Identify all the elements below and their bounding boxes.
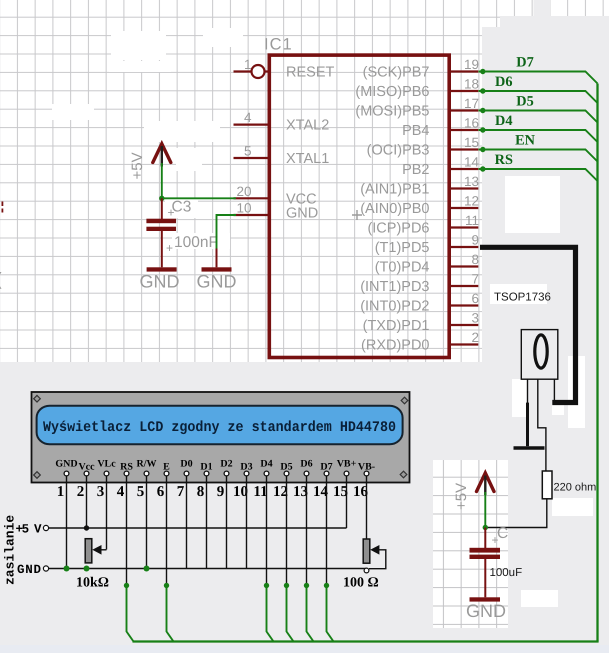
pin 20 VCC (left) — [234, 197, 270, 199]
svg-text:2: 2 — [471, 330, 479, 345]
LCD pad circle pin 12 — [284, 471, 289, 476]
wire LCD net D6 to bottom bus — [307, 586, 314, 642]
wire +5V stem to node — [161, 146, 163, 167]
svg-text:D5: D5 — [516, 94, 533, 110]
svg-text:(RXD)PD0: (RXD)PD0 — [361, 338, 429, 354]
svg-text:(INT0)PD2: (INT0)PD2 — [360, 299, 429, 315]
svg-text:10: 10 — [236, 201, 251, 216]
white-out patch 2 — [52, 104, 94, 120]
bottom window band — [0, 645, 609, 653]
svg-text:R/W: R/W — [137, 459, 157, 470]
junction Vcc/+5V rail — [84, 525, 89, 530]
junction dot LCD net D7 — [324, 583, 329, 588]
svg-text:4: 4 — [117, 484, 125, 500]
ground symbol TSOP — [514, 446, 545, 450]
wire LCD pin 4 vertical — [126, 476, 128, 586]
svg-text:(T0)PD4: (T0)PD4 — [375, 260, 430, 276]
svg-text:C: C — [497, 525, 508, 542]
junction pin1/GND rail — [64, 566, 70, 572]
LCD pad circle pin 14 — [324, 471, 329, 476]
LCD pad circle pin 15 — [344, 471, 349, 476]
svg-text:zasilanie: zasilanie — [3, 515, 18, 585]
svg-text:17: 17 — [464, 96, 479, 111]
wire net D5 from IC to right bus — [479, 111, 598, 123]
svg-text:11: 11 — [253, 484, 267, 500]
wire LCD pin 9 vertical — [226, 476, 228, 569]
pin 3 (TXD)PD1 (right) — [448, 324, 478, 326]
cut-off text mark left edge 1 — [1, 202, 3, 213]
svg-text:100nF: 100nF — [174, 234, 218, 251]
wire LCD net RS to bottom bus — [127, 586, 134, 642]
junction dot LCD net D4 — [264, 583, 269, 588]
terminal circle GND — [43, 566, 48, 571]
LCD pad circle pin 13 — [304, 471, 309, 476]
pin 5 XTAL1 (left) — [234, 157, 270, 159]
pin 13 (AIN1)PB1 (right) — [448, 187, 478, 189]
pin 11 (ICP)PD6 (right) — [448, 226, 478, 228]
wire net D6 from IC to right bus — [479, 91, 598, 103]
svg-text:1: 1 — [244, 57, 252, 72]
svg-text:XTAL2: XTAL2 — [286, 118, 329, 134]
svg-text:15: 15 — [333, 484, 348, 500]
svg-text:8: 8 — [197, 484, 205, 500]
svg-text:+: + — [492, 533, 499, 547]
LCD pad circle pin 2 — [84, 471, 89, 476]
svg-text:+5V: +5V — [453, 483, 470, 510]
junction node cap/+5V — [483, 525, 488, 530]
svg-text:(ICP)PD6: (ICP)PD6 — [367, 221, 429, 237]
LCD pad circle pin 9 — [224, 471, 229, 476]
white-out patch 11 — [568, 356, 585, 428]
outside-sheet gray area right — [482, 16, 609, 653]
svg-text:(AIN1)PB1: (AIN1)PB1 — [360, 182, 429, 198]
wire node to VCC pin 20 — [162, 197, 236, 199]
grid top strip — [482, 0, 609, 16]
TSOP1736 lens ellipse — [535, 335, 547, 368]
svg-text:(: ( — [0, 269, 2, 289]
LCD pad circle pin 3 — [104, 471, 109, 476]
grid over canvas top-left — [0, 0, 482, 362]
svg-text:D0: D0 — [180, 459, 192, 470]
svg-text:(INT1)PD3: (INT1)PD3 — [360, 279, 429, 295]
pin 4 XTAL2 (left) — [234, 123, 270, 125]
svg-text:12: 12 — [464, 194, 479, 209]
svg-text:(TXD)PD1: (TXD)PD1 — [363, 318, 430, 334]
svg-text:15: 15 — [464, 135, 479, 150]
wire LCD pin 8 vertical — [206, 476, 208, 569]
svg-text:(MISO)PB6: (MISO)PB6 — [355, 84, 429, 100]
wire LCD net D7 to bottom bus — [327, 586, 334, 642]
IC1 origin cross — [352, 210, 362, 220]
svg-text:+5V: +5V — [129, 152, 146, 179]
screw bottom-left — [34, 472, 41, 479]
svg-text:220 ohm: 220 ohm — [554, 482, 597, 494]
svg-text:PB4: PB4 — [402, 123, 429, 139]
svg-text:11: 11 — [465, 213, 479, 228]
svg-text:19: 19 — [464, 57, 479, 72]
wire LCD pin 16 vertical — [366, 476, 368, 539]
wire LCD pin 3 vertical — [106, 476, 108, 550]
white grid patch bottom right — [433, 460, 508, 628]
svg-text:VB+: VB+ — [337, 459, 357, 470]
svg-text:VLc: VLc — [97, 459, 116, 470]
svg-text:9: 9 — [471, 233, 479, 248]
svg-text:+: + — [166, 241, 173, 255]
LCD pad circle pin 11 — [264, 471, 269, 476]
white-out patch 15 — [521, 590, 558, 607]
wire net D4 from IC to right bus — [479, 130, 598, 142]
wire LCD net EN to bottom bus — [167, 586, 174, 642]
screw bottom-right — [400, 471, 407, 478]
pin 16 PB4 (right) — [448, 129, 478, 131]
svg-text:IC1: IC1 — [264, 36, 293, 54]
LCD pad circle pin 6 — [164, 471, 169, 476]
wire LCD pin 11 vertical — [266, 476, 268, 586]
outside-sheet gray area bottom — [0, 362, 482, 653]
junction node C3/+5V — [159, 196, 164, 201]
junction dot net D6 — [480, 88, 485, 93]
wire thick black pin 9 to TSOP OUT — [480, 247, 576, 402]
wire LCD pin 14 vertical — [326, 476, 328, 586]
screw top-right — [401, 397, 408, 404]
TSOP pin 2 (Vs) lead to resistor — [538, 379, 546, 471]
svg-text:13: 13 — [293, 484, 308, 500]
screw top-left — [34, 395, 41, 402]
svg-text:(AIN0)PB0: (AIN0)PB0 — [360, 201, 429, 217]
white-out patch 14 — [552, 498, 593, 516]
wire LCD pin 6 vertical — [166, 476, 168, 586]
svg-text:(SCK)PB7: (SCK)PB7 — [363, 65, 430, 81]
wire bottom green bus — [133, 640, 599, 642]
svg-text:5: 5 — [244, 144, 252, 159]
svg-text:(OCI)PB3: (OCI)PB3 — [367, 143, 430, 159]
pin 1 RESET (left) — [234, 70, 252, 72]
svg-text:3: 3 — [97, 484, 105, 500]
op IC1 ATmega body — [269, 55, 449, 357]
TSOP pin 3 (OUT) lead — [553, 379, 555, 403]
svg-text:GND: GND — [197, 272, 237, 292]
junction dot LCD net EN — [164, 583, 169, 588]
TSOP pin 1 (GND) lead — [527, 379, 529, 404]
svg-text:D7: D7 — [516, 55, 533, 71]
svg-text:9: 9 — [217, 484, 225, 500]
terminal circle +5V — [43, 525, 48, 530]
IR receiver TSOP1736 body — [521, 330, 558, 380]
svg-text:7: 7 — [177, 484, 185, 500]
white-out patch 12 — [552, 404, 564, 415]
svg-text:12: 12 — [273, 484, 288, 500]
svg-text:D4: D4 — [495, 113, 512, 129]
wire LCD pin 10 vertical — [246, 476, 248, 569]
white-out patch 3 — [144, 121, 220, 142]
white-out patch 4 — [176, 148, 202, 171]
svg-text:Wyświetlacz LCD zgodny ze stan: Wyświetlacz LCD zgodny ze standardem HD4… — [43, 420, 396, 436]
wire LCD pin 12 vertical — [286, 476, 288, 586]
svg-text:6: 6 — [471, 291, 479, 306]
svg-text:3: 3 — [471, 311, 479, 326]
pin 8 (T0)PD4 (right) — [448, 265, 478, 267]
wire GND pin10 to ground — [217, 215, 237, 249]
svg-text:GND: GND — [17, 563, 41, 577]
LCD pad circle pin 5 — [144, 471, 149, 476]
white-out patch 7 — [172, 233, 230, 249]
LCD pad circle pin 4 — [124, 471, 129, 476]
junction dot net RS — [480, 166, 485, 171]
svg-text:20: 20 — [236, 184, 251, 199]
resistor 220 ohm body — [542, 471, 552, 499]
wire LCD net D5 to bottom bus — [287, 586, 294, 642]
potentiometer R 10k body — [85, 539, 92, 563]
svg-text:D4: D4 — [260, 459, 272, 470]
white-out patch 13 — [512, 379, 527, 417]
junction pin5 R/W GND rail — [144, 566, 150, 572]
pot 100 wiper loop — [369, 550, 386, 569]
white grid step top-right — [482, 16, 500, 27]
wire LCD pin 1 vertical — [66, 476, 68, 569]
pin 10 GND (left) — [234, 214, 270, 216]
wire net RS from IC to right bus — [479, 169, 598, 181]
wire net D7 from IC to right bus — [479, 72, 598, 84]
svg-text:100 Ω: 100 Ω — [343, 576, 379, 591]
white-out patch 9 — [505, 176, 560, 233]
white-out patch 1 — [111, 31, 166, 60]
wire LCD pin 13 vertical — [306, 476, 308, 586]
pot 10k wiper — [98, 549, 107, 551]
white-out patch 5 — [203, 28, 243, 47]
junction dot LCD net RS — [124, 583, 129, 588]
svg-text:100uF: 100uF — [490, 567, 523, 579]
wire +5V stem bottom — [484, 476, 486, 496]
svg-text:D6: D6 — [495, 74, 512, 90]
wire GND rail — [49, 568, 367, 570]
svg-text:5: 5 — [137, 484, 145, 500]
wire LCD pin 2 vertical — [86, 476, 88, 528]
svg-text:18: 18 — [464, 77, 479, 92]
junction dot LCD net D6 — [304, 583, 309, 588]
junction dot net D7 — [480, 69, 485, 74]
junction dot LCD net D5 — [284, 583, 289, 588]
LCD pad circle pin 7 — [184, 471, 189, 476]
white-out patch 6 — [165, 198, 198, 218]
svg-text:2: 2 — [77, 484, 85, 500]
LCD pad circle pin 10 — [244, 471, 249, 476]
junction dot net D4 — [480, 127, 485, 132]
+5V supply symbol (top) — [153, 144, 171, 163]
wire LCD net D4 to bottom bus — [267, 586, 274, 642]
pin 14 PB2 (right) — [448, 168, 478, 170]
pin 15 (OCI)PB3 (right) — [448, 148, 478, 150]
pin 9 (T1)PD5 (right) — [448, 246, 478, 248]
LCD blue display window — [37, 406, 403, 445]
svg-text:EN: EN — [515, 133, 536, 149]
svg-text:XTAL1: XTAL1 — [286, 151, 329, 167]
LCD module body — [32, 392, 410, 483]
svg-text:6: 6 — [157, 484, 165, 500]
svg-text:1: 1 — [57, 484, 65, 500]
wire resistor to +5V node — [485, 499, 547, 528]
ground symbol under pin10 — [202, 267, 232, 271]
LCD pad circle pin 8 — [204, 471, 209, 476]
gray notch in top strip — [534, 0, 551, 16]
svg-text:PB2: PB2 — [402, 162, 429, 178]
white-out patch 8 — [109, 61, 171, 72]
ground symbol under C3 — [147, 267, 177, 271]
wire +5V rail — [49, 527, 347, 529]
svg-text:GND: GND — [140, 272, 180, 292]
junction dot net D5 — [480, 108, 485, 113]
svg-text:14: 14 — [464, 155, 480, 170]
wire net EN from IC to right bus — [479, 150, 598, 162]
svg-text:10: 10 — [233, 484, 248, 500]
LCD pad circle pin 16 — [364, 471, 369, 476]
wire LCD pin 5 vertical — [146, 476, 148, 569]
white-out patch 10 — [490, 284, 547, 304]
svg-text:+: + — [168, 206, 175, 220]
wire LCD pin 7 vertical — [186, 476, 188, 569]
svg-text:+5 V: +5 V — [16, 523, 42, 537]
svg-text:RS: RS — [495, 152, 513, 168]
svg-text:(MOSI)PB5: (MOSI)PB5 — [355, 104, 429, 120]
svg-text:7: 7 — [471, 272, 479, 287]
pin 17 (MOSI)PB5 (right) — [448, 109, 478, 111]
svg-text:D6: D6 — [300, 459, 312, 470]
junction pot/GND rail — [84, 566, 90, 572]
pin 19 (SCK)PB7 (right) — [448, 70, 478, 72]
svg-text:16: 16 — [464, 116, 479, 131]
wire right vertical green bus — [596, 84, 598, 642]
capacitor C3 — [161, 198, 163, 219]
junction dot net EN — [480, 147, 485, 152]
+5V supply symbol (bottom) — [477, 473, 495, 492]
ground symbol bottom right — [470, 597, 501, 601]
pin 7 (INT1)PD3 (right) — [448, 285, 478, 287]
svg-text:D2: D2 — [220, 459, 232, 470]
svg-text:8: 8 — [471, 252, 479, 267]
pot 100 bottom terminal circle — [364, 568, 369, 573]
pin 2 (RXD)PD0 (right) — [448, 343, 478, 345]
svg-text:GND: GND — [55, 459, 77, 470]
svg-text:4: 4 — [244, 110, 252, 125]
svg-text:13: 13 — [464, 174, 479, 189]
svg-text:(T1)PD5: (T1)PD5 — [375, 240, 430, 256]
svg-text:TSOP1736: TSOP1736 — [494, 292, 551, 304]
wire LCD pin 15 vertical — [346, 476, 348, 528]
potentiometer R 100 body — [363, 539, 370, 563]
svg-text:10kΩ: 10kΩ — [76, 576, 109, 591]
pin 6 (INT0)PD2 (right) — [448, 304, 478, 306]
pin 12 (AIN0)PB0 (right) — [448, 207, 478, 209]
svg-text:RESET: RESET — [286, 65, 334, 81]
pin 18 (MISO)PB6 (right) — [448, 90, 478, 92]
capacitor C 100uF — [484, 528, 486, 549]
LCD pad circle pin 1 — [64, 471, 69, 476]
svg-text:GND: GND — [286, 206, 318, 222]
svg-text:GND: GND — [466, 601, 506, 621]
